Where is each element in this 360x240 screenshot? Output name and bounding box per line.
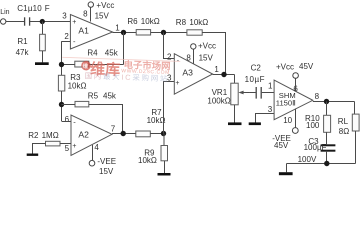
svg-text:+: + (72, 19, 76, 26)
wire wiper to C2 (249, 92, 255, 94)
ground SHM pin3 (249, 122, 261, 125)
svg-text:R8: R8 (176, 18, 187, 27)
svg-text:15V: 15V (199, 53, 214, 62)
svg-text:R1: R1 (17, 37, 28, 46)
wire node down to A3 pin2 (164, 33, 175, 59)
terminal -VEE A2 (89, 160, 95, 166)
terminal +Vcc SHM (293, 73, 299, 79)
svg-text:45V: 45V (299, 62, 314, 71)
input terminal Lin (1, 19, 6, 24)
wire R5 left (62, 104, 76, 106)
svg-text:8: 8 (315, 92, 320, 101)
svg-text:+Vcc: +Vcc (96, 1, 114, 10)
wire Lin to C1 (6, 21, 24, 23)
wire R5 right and down to A2 out (89, 105, 123, 134)
svg-text:10kΩ: 10kΩ (189, 18, 208, 27)
wire down to RL (354, 102, 356, 115)
svg-text:R6: R6 (127, 17, 138, 26)
svg-text:10kΩ: 10kΩ (141, 17, 160, 26)
wire R9 to ground (164, 161, 166, 173)
svg-text:R4: R4 (87, 49, 98, 58)
wire R6 to R8 (151, 32, 187, 34)
wire A1 output to R6 (113, 32, 137, 34)
wire SHM pin3 to ground (256, 114, 275, 123)
node A2 output (121, 131, 126, 136)
terminal -VEE SHM (292, 128, 298, 134)
svg-text:3: 3 (62, 11, 67, 20)
wire RL to bottom rail (355, 131, 357, 164)
svg-text:10: 10 (283, 116, 292, 125)
resistor RL (352, 114, 359, 131)
wire R4 right (89, 64, 124, 66)
wire R8 to A3 output node (202, 33, 225, 75)
svg-text:15V: 15V (95, 11, 110, 20)
wire rail to ground (286, 164, 288, 173)
svg-text:A3: A3 (182, 68, 193, 78)
node R6/R8/A3pin2 (161, 30, 166, 35)
svg-text:10kΩ: 10kΩ (147, 116, 166, 125)
node A1 output (121, 30, 126, 35)
potentiometer VR1 (231, 83, 238, 105)
wire C1 to A1 pin3 (30, 21, 70, 23)
resistor R10 (324, 115, 331, 132)
svg-text:1: 1 (214, 65, 219, 74)
power amp SHM1150 (274, 80, 313, 120)
ground bottom rail (279, 172, 293, 175)
wire SHM pin10 (295, 109, 297, 128)
svg-text:6: 6 (65, 115, 70, 124)
resistor R8 (187, 30, 202, 35)
svg-text:+Vcc: +Vcc (276, 62, 294, 71)
node SHM output (324, 99, 329, 104)
wire A2 pin4 (92, 145, 94, 160)
svg-text:1: 1 (268, 81, 273, 90)
node R7/R9/A3pin3 (161, 131, 166, 136)
svg-text:10kΩ: 10kΩ (68, 81, 87, 90)
ground below VR1 (228, 122, 242, 125)
svg-text:2: 2 (64, 32, 69, 41)
capacitor C2 (256, 87, 261, 99)
svg-text:100: 100 (306, 121, 320, 130)
wire A3 pin8 (193, 49, 195, 64)
terminal +Vcc A1 (88, 2, 93, 7)
node junction C1/R1 (40, 19, 45, 24)
resistor R5 (75, 101, 89, 107)
wire pin2 vertical (61, 41, 63, 75)
op-amp A3 (174, 54, 212, 94)
resistor R4 (75, 61, 89, 67)
wire node up to A3 pin3 (164, 82, 175, 134)
wire R2 left to ground (33, 144, 46, 154)
wire A1 pin2 (62, 41, 71, 43)
svg-text:+: + (175, 80, 179, 87)
resistor R1 (40, 34, 46, 51)
op-amp A2 (71, 115, 112, 155)
svg-text:1MΩ: 1MΩ (42, 131, 59, 140)
wire A1 out down to R4 (123, 33, 125, 65)
ground below R9 (158, 173, 171, 176)
resistor R9 (161, 146, 168, 161)
svg-text:+: + (72, 143, 76, 150)
wire down to VR1 (234, 75, 236, 84)
svg-text:C2: C2 (251, 64, 262, 73)
wire C2 to SHM pin1 (262, 92, 274, 94)
wire R1 to ground (42, 51, 44, 63)
svg-text:R5: R5 (88, 91, 99, 100)
svg-text:维: 维 (82, 62, 88, 70)
resistor R2 (46, 141, 61, 146)
svg-text:1150Ⅱ: 1150Ⅱ (276, 99, 296, 108)
wire C3 to bottom rail (326, 151, 328, 164)
VR1 wiper arrow (238, 91, 249, 95)
wire A2 output (112, 133, 136, 135)
svg-text:10kΩ: 10kΩ (138, 156, 157, 165)
svg-text:45V: 45V (274, 141, 289, 150)
svg-text:1: 1 (115, 23, 120, 32)
node R3/R5/A2pin6 (59, 102, 64, 107)
node A3 output (221, 72, 226, 77)
wire R7 to node (150, 133, 163, 135)
svg-text:4: 4 (94, 143, 99, 152)
wire SHM output row (313, 101, 355, 103)
terminal +Vcc A3 (191, 44, 196, 49)
resistor R3 (58, 75, 64, 91)
svg-text:8Ω: 8Ω (339, 127, 349, 136)
capacitor C1 (25, 17, 30, 25)
wire VR1 to ground (234, 105, 236, 123)
node R4/R3/pin2 (59, 62, 64, 67)
svg-text:A2: A2 (78, 129, 89, 139)
svg-text:45k: 45k (105, 49, 119, 58)
bottom rail wire (287, 163, 356, 165)
svg-text:5: 5 (65, 144, 70, 153)
wire node down to R9 (163, 134, 165, 146)
svg-text:10µF: 10µF (245, 75, 265, 84)
svg-text:+Vcc: +Vcc (198, 42, 216, 51)
wire A2 pin6 (62, 121, 72, 123)
wire R3 to R5 node (61, 91, 63, 121)
ground below R1 (35, 62, 49, 65)
svg-text:15V: 15V (99, 167, 114, 176)
svg-text:A1: A1 (78, 26, 89, 36)
svg-text:3: 3 (268, 105, 273, 114)
svg-text:R2: R2 (28, 131, 39, 140)
wire node down to R10 (326, 102, 328, 116)
svg-text:7: 7 (111, 125, 116, 134)
wire A3 output (213, 74, 235, 76)
wire R2 to pin5 (60, 143, 71, 145)
svg-text:RL: RL (338, 117, 349, 126)
capacitor C3 (321, 145, 336, 150)
watermark weiku logo (62, 57, 181, 84)
svg-text:100kΩ: 100kΩ (207, 96, 230, 105)
svg-text:100V: 100V (298, 155, 317, 164)
wire R4 left to pin2 node (62, 64, 75, 66)
resistor R6 (136, 30, 150, 35)
svg-text:45k: 45k (103, 91, 117, 100)
op-amp A1 (70, 15, 112, 50)
resistor R7 (136, 131, 151, 137)
svg-text:C1µ10: C1µ10 (17, 4, 42, 13)
svg-text:-VEE: -VEE (97, 157, 116, 166)
svg-text:国内最大IC采购网站: 国内最大IC采购网站 (85, 71, 170, 83)
svg-text:47k: 47k (16, 48, 30, 57)
wire node to R1 (42, 22, 44, 35)
ground below R2 (27, 154, 39, 156)
svg-text:100µF: 100µF (304, 143, 327, 152)
svg-text:Lin: Lin (0, 9, 9, 16)
node C3/bottom rail (324, 161, 329, 166)
wire R10 to C3 (326, 132, 328, 144)
svg-text:8: 8 (83, 10, 88, 19)
svg-text:F: F (45, 4, 50, 13)
wire A1 pin8 to Vcc (90, 7, 92, 21)
wire SHM pin6 (295, 78, 297, 91)
svg-text:8: 8 (186, 53, 191, 62)
